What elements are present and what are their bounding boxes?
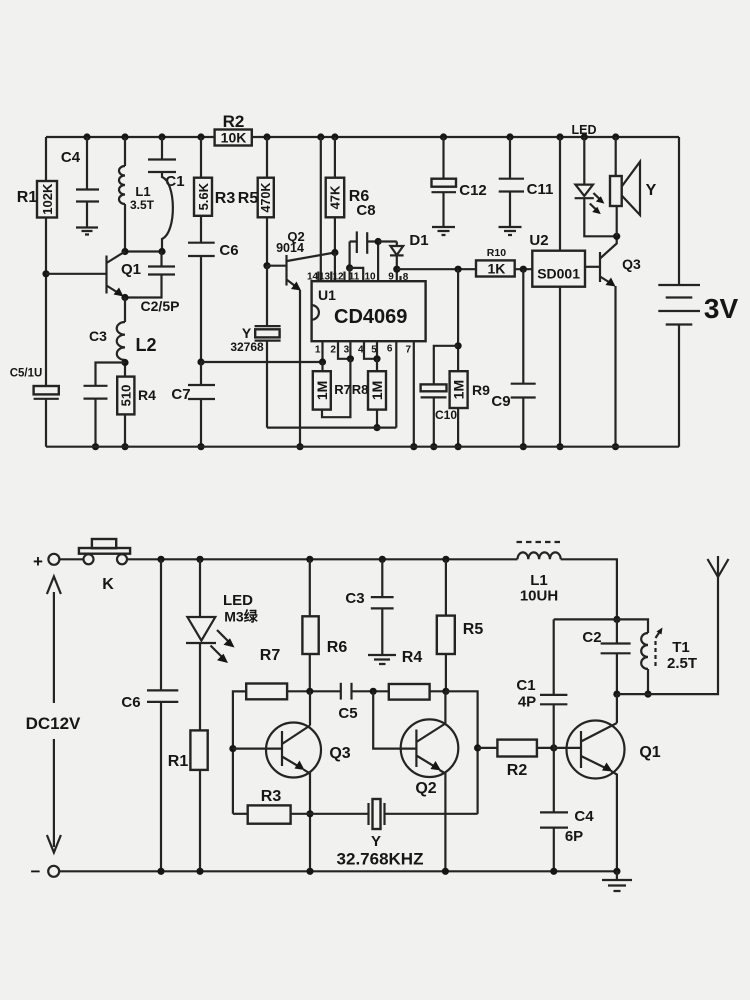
wire Q3 emitter down	[614, 286, 616, 447]
wire T1 top link	[617, 619, 648, 633]
svg-text:1M: 1M	[369, 381, 385, 400]
wire collector node to pin13	[334, 253, 336, 282]
svg-text:D1: D1	[409, 232, 428, 249]
wire R7 top	[321, 362, 323, 371]
node R1 rail	[196, 868, 203, 875]
wire pin12-pin11 bridge	[350, 268, 364, 281]
node C2 top	[158, 248, 165, 255]
node T1 bottom junction	[644, 691, 651, 698]
svg-text:Q3: Q3	[622, 256, 641, 272]
wire R10 to U2	[515, 268, 533, 270]
node rail-pin14	[317, 133, 324, 140]
svg-text:+: +	[33, 552, 43, 571]
svg-text:L1: L1	[530, 572, 548, 589]
transistor Q2 bottom circle	[401, 719, 459, 777]
resistor R2 bottom box	[497, 740, 537, 757]
capacitor C6 bottom circuit	[160, 559, 162, 690]
wire Q1 collector up	[616, 694, 618, 723]
svg-text:470K: 470K	[259, 183, 273, 213]
wire Q1 emitter down	[611, 771, 617, 871]
svg-text:12: 12	[332, 272, 344, 283]
wire Q3 base	[585, 266, 600, 268]
capacitor C3 bottom	[381, 559, 383, 597]
wire bottom ground rail (lower circuit)	[59, 870, 617, 872]
capacitor C8	[356, 231, 358, 253]
transistor Q1 bottom circle	[567, 721, 625, 779]
svg-text:R1: R1	[168, 753, 189, 770]
node Q1 base	[42, 270, 49, 277]
wire Q3 collector up	[309, 691, 311, 725]
svg-text:R2: R2	[507, 762, 528, 779]
wire Q1 base	[46, 273, 107, 275]
wire R3 right leg	[291, 813, 310, 815]
svg-text:R5: R5	[238, 190, 259, 207]
transistor Q1	[105, 256, 107, 294]
svg-text:3V: 3V	[704, 293, 739, 324]
node L2 bottom	[121, 359, 128, 366]
resistor R5 bottom	[445, 559, 447, 615]
capacitor C4	[86, 137, 88, 189]
svg-text:M3绿: M3绿	[224, 609, 258, 625]
U1 notch	[312, 305, 319, 320]
svg-text:Y: Y	[646, 182, 657, 199]
svg-text:R7: R7	[260, 647, 281, 664]
node Q1 emitter rail	[613, 868, 620, 875]
svg-text:C5/1U: C5/1U	[10, 368, 43, 380]
node rail-R5	[263, 133, 270, 140]
inductor L1 10UH	[518, 552, 561, 559]
transistor Q2	[285, 255, 287, 286]
resistor R3 box	[194, 178, 212, 216]
wire U2 top to rail	[559, 137, 561, 251]
node Q1 emitter	[121, 294, 128, 301]
svg-text:10K: 10K	[221, 130, 247, 146]
svg-text:11: 11	[349, 272, 360, 283]
wire junction to C10	[434, 346, 458, 385]
resistor R6 box	[326, 178, 345, 218]
svg-text:LED: LED	[223, 592, 253, 609]
svg-text:C4: C4	[574, 808, 594, 825]
svg-text:L2: L2	[135, 335, 156, 355]
svg-text:510: 510	[118, 385, 133, 407]
node R4 bottom rail	[121, 443, 128, 450]
svg-text:R9: R9	[472, 382, 490, 398]
resistor R2 box	[215, 130, 252, 146]
wire junction to C7	[200, 362, 202, 385]
svg-text:C4: C4	[61, 149, 81, 166]
wire rail to right corner	[561, 559, 617, 619]
svg-text:C1: C1	[516, 677, 535, 694]
wire R4 right	[430, 690, 446, 692]
wire Q2 emitter down	[299, 290, 301, 447]
wire R9 top link	[457, 269, 459, 371]
wire pin1 stub	[321, 341, 323, 362]
svg-text:R10: R10	[487, 247, 506, 259]
node U2 bottom rail	[556, 443, 563, 450]
capacitor C10	[421, 384, 447, 391]
svg-text:U1: U1	[318, 287, 336, 303]
svg-text:C10: C10	[435, 408, 457, 422]
node C2 top	[613, 616, 620, 623]
svg-text:32768: 32768	[230, 340, 264, 354]
transformer T1 coil	[641, 633, 648, 694]
svg-text:R6: R6	[327, 639, 348, 656]
svg-text:C2: C2	[582, 629, 601, 646]
inductor L1	[119, 137, 125, 252]
node rail-C4	[83, 133, 90, 140]
svg-text:T1: T1	[672, 639, 690, 656]
switch K	[84, 554, 94, 564]
node R2 left	[474, 744, 481, 751]
node pin7 rail	[410, 443, 417, 450]
svg-text:R8: R8	[352, 382, 369, 397]
resistor R4 bottom box	[389, 684, 430, 700]
node rail-C12	[440, 133, 447, 140]
node C6-C7 junction	[197, 358, 204, 365]
wire bottom ground rail	[46, 446, 679, 448]
svg-text:R7: R7	[334, 382, 351, 397]
svg-text:Q1: Q1	[121, 261, 141, 278]
wire R6 to collector node	[334, 217, 336, 252]
svg-text:47K: 47K	[327, 185, 342, 209]
ground below C11	[499, 227, 522, 235]
wire plus to switch	[59, 558, 83, 560]
node D1 bottom	[393, 266, 400, 273]
svg-text:4P: 4P	[518, 694, 536, 711]
svg-text:C12: C12	[459, 182, 487, 199]
capacitor C3	[84, 385, 108, 387]
node C3 bottom rail	[92, 443, 99, 450]
wire C5 to bottom rail	[45, 399, 47, 447]
IC U2 SD001 box	[532, 251, 585, 287]
node Q2 emitter rail	[442, 868, 449, 875]
capacitor C5/1U	[34, 386, 59, 394]
wire feedback bus	[267, 427, 396, 429]
wire R3 to C6	[200, 216, 202, 243]
svg-text:K: K	[102, 576, 114, 593]
capacitor C1 4P	[553, 619, 555, 695]
wire oscillator feed line	[201, 361, 323, 363]
svg-text:LED: LED	[572, 123, 597, 137]
wire C6 down to node	[200, 256, 202, 362]
node pin1 junction	[319, 358, 326, 365]
svg-text:SD001: SD001	[537, 266, 580, 282]
node R9-C10 junction	[455, 342, 462, 349]
node Q1 collector	[121, 248, 128, 255]
svg-text:L1: L1	[135, 184, 150, 199]
wire pin3 to R7 bottom	[322, 359, 350, 417]
wire Q2 emitter down	[440, 770, 446, 871]
node rail-speaker	[612, 133, 619, 140]
capacitor C9	[522, 269, 524, 384]
svg-text:C8: C8	[356, 202, 375, 219]
wire pins4-5 bridge	[364, 341, 377, 359]
svg-text:R1: R1	[17, 189, 38, 206]
wire R2 right link	[537, 747, 554, 749]
svg-text:32.768KHZ: 32.768KHZ	[337, 850, 424, 869]
capacitor C1	[161, 137, 163, 160]
IC U1 CD4069 box	[312, 281, 426, 341]
svg-text:102K: 102K	[40, 183, 55, 215]
wire pin6 stub	[395, 341, 397, 427]
node rail-LED	[581, 133, 588, 140]
resistor R6 bottom	[309, 559, 311, 616]
svg-text:C11: C11	[527, 181, 554, 198]
svg-text:2: 2	[330, 345, 336, 356]
svg-text:6: 6	[387, 344, 393, 355]
svg-text:U2: U2	[529, 232, 548, 249]
resistor R6 branch wire	[334, 137, 336, 178]
diode D1	[396, 242, 398, 247]
node C7 bottom rail	[197, 443, 204, 450]
svg-text:R3: R3	[215, 190, 236, 207]
svg-text:C5: C5	[338, 705, 357, 722]
node C5-Q2 base junction	[370, 688, 377, 695]
LED bottom arrows	[217, 630, 229, 642]
node rail-C6b	[157, 556, 164, 563]
node C9 top	[520, 266, 527, 273]
resistor R1 box bottom	[190, 730, 207, 770]
node Q1 base	[550, 744, 557, 751]
svg-text:5.6K: 5.6K	[196, 182, 211, 210]
node C6 bottom rail	[157, 868, 164, 875]
resistor R3 box	[248, 805, 291, 823]
svg-text:3.5T: 3.5T	[130, 198, 155, 212]
node C10 rail	[430, 443, 437, 450]
svg-text:9: 9	[388, 272, 394, 283]
svg-text:R4: R4	[138, 387, 156, 403]
node pin5 junction	[373, 355, 380, 362]
inductor L2	[117, 298, 125, 377]
svg-text:Y: Y	[371, 833, 381, 850]
svg-text:6P: 6P	[565, 828, 583, 845]
svg-text:R5: R5	[463, 621, 484, 638]
node Q3 emitter rail	[306, 868, 313, 875]
crystal Y 32.768KHZ	[310, 813, 369, 815]
capacitor C2	[148, 265, 175, 267]
node rail-L1	[121, 133, 128, 140]
svg-text:C6: C6	[219, 242, 238, 259]
svg-text:3: 3	[344, 345, 350, 356]
wire collector link	[125, 250, 162, 252]
crystal Y 32768	[255, 325, 281, 327]
wire Q2 base link	[267, 265, 287, 267]
ground below C4	[76, 228, 98, 235]
supply arrow DC12V	[53, 592, 55, 847]
svg-text:Y: Y	[242, 325, 252, 341]
wire top supply rail right segment	[252, 136, 679, 138]
wire L2 to C3	[96, 363, 126, 386]
wire pin14 supply	[320, 137, 322, 281]
LED arrows	[593, 193, 599, 199]
capacitor C2 bottom	[616, 619, 618, 643]
node rail-R6	[331, 133, 338, 140]
svg-text:C3: C3	[345, 590, 364, 607]
svg-text:1M: 1M	[314, 381, 330, 400]
battery 3V	[678, 137, 680, 285]
T1 adjust arrow	[654, 638, 656, 666]
capacitor C4 6P	[553, 748, 555, 813]
transistor Q3	[599, 252, 601, 282]
svg-text:R2: R2	[223, 112, 245, 131]
wire R8 top	[376, 359, 378, 371]
svg-text:1K: 1K	[487, 261, 505, 277]
node rail-R5b	[442, 556, 449, 563]
capacitor C12	[442, 137, 444, 179]
resistor R1 box	[37, 181, 57, 218]
node R6-Q3 collector	[306, 688, 313, 695]
wire node down to crystal	[266, 266, 268, 326]
wire pins2-3 bridge	[338, 341, 350, 359]
wire R3 left leg	[233, 813, 248, 815]
node Q3 base bottom	[229, 745, 236, 752]
svg-text:Q2: Q2	[415, 780, 436, 797]
node C8 right	[375, 238, 382, 245]
resistor R10 box	[476, 260, 515, 276]
wire R9 bottom	[457, 408, 459, 447]
svg-text:−: −	[31, 862, 41, 881]
wire left branch upper	[45, 137, 47, 181]
node Q3 emitter rail	[612, 443, 619, 450]
wire D1 to R10	[397, 268, 476, 270]
wire R1 to rail	[199, 770, 201, 871]
LED indicator	[583, 137, 585, 185]
wire R8 bottom to bus	[376, 410, 378, 428]
node R8 bottom	[373, 424, 380, 431]
svg-text:1: 1	[315, 345, 321, 356]
terminal plus circle	[48, 554, 59, 565]
svg-text:DC12V: DC12V	[26, 714, 81, 733]
svg-text:8: 8	[403, 272, 409, 283]
wire antenna feed	[617, 577, 718, 694]
node R3 right	[306, 810, 313, 817]
wire top supply rail left segment	[46, 136, 215, 138]
speaker Y	[615, 137, 617, 176]
capacitor C6	[188, 242, 215, 244]
wire bottom top rail	[127, 558, 518, 560]
wire C8 to D1	[378, 240, 397, 242]
resistor R7 box	[313, 371, 331, 409]
node R9 rail	[455, 443, 462, 450]
wire R2 left link	[478, 747, 498, 749]
wire Q3 emitter down	[304, 770, 311, 872]
resistor R5 branch wire	[266, 137, 268, 178]
svg-text:C2/5P: C2/5P	[141, 298, 180, 314]
svg-text:Q1: Q1	[639, 744, 660, 761]
svg-text:CD4069: CD4069	[334, 306, 407, 328]
resistor R5 box	[258, 178, 274, 218]
svg-text:2.5T: 2.5T	[667, 655, 697, 672]
wire C8 left leg	[349, 242, 351, 268]
LED M3 green	[199, 559, 201, 617]
wire Q3 base link	[233, 747, 282, 749]
resistor R7 bottom box	[246, 684, 287, 700]
ground below C3	[368, 655, 396, 664]
capacitor C11	[509, 137, 511, 179]
wire R5 to Q2 base node	[266, 217, 268, 265]
svg-text:9014: 9014	[276, 241, 304, 255]
wire R7 left leg	[233, 691, 246, 813]
svg-text:7: 7	[406, 345, 412, 356]
wire C8 right to pin10	[377, 242, 379, 282]
node rail-U2	[556, 133, 563, 140]
wire C1 bottom bulge	[162, 172, 173, 252]
svg-text:R3: R3	[261, 788, 282, 805]
node Q2 collector	[331, 249, 338, 256]
resistor R4 box	[117, 377, 134, 415]
wire Q2 base drop	[373, 691, 416, 748]
node C4 rail	[550, 868, 557, 875]
ground below C12	[432, 227, 455, 235]
wire R4 to bottom rail	[124, 414, 126, 446]
wire R7 right to collector node	[287, 690, 341, 692]
U1 top pin separators	[318, 272, 400, 282]
wire Q2 collector up	[444, 691, 446, 723]
svg-text:Q3: Q3	[329, 745, 350, 762]
node Q2 base	[263, 262, 270, 269]
capacitor C5 bottom	[340, 683, 342, 700]
svg-text:C9: C9	[491, 393, 510, 410]
wire left branch lower	[45, 218, 47, 387]
svg-text:R4: R4	[402, 649, 423, 666]
svg-text:14: 14	[307, 272, 319, 283]
transistor Q3 bottom circle	[266, 723, 321, 778]
node R5-Q2 collector	[442, 688, 449, 695]
node Q2 emitter rail	[296, 443, 303, 450]
ground at rail end	[616, 871, 618, 879]
svg-text:10: 10	[364, 272, 376, 283]
capacitor C7	[188, 384, 215, 386]
node rail-LEDb	[196, 556, 203, 563]
wire pin7 to ground rail	[413, 341, 415, 447]
resistor R8 box	[368, 371, 386, 409]
svg-text:1M: 1M	[451, 380, 467, 399]
wire U2 bottom to rail	[559, 287, 561, 447]
node rail-R3	[197, 133, 204, 140]
node C9 rail	[520, 443, 527, 450]
svg-text:C6: C6	[121, 694, 140, 711]
svg-text:C7: C7	[171, 386, 190, 403]
node pin3 junction	[347, 355, 354, 362]
node C2 bottom junction	[613, 691, 620, 698]
node rail-R6b	[306, 556, 313, 563]
node rail-C1	[158, 133, 165, 140]
svg-text:10UH: 10UH	[520, 588, 558, 605]
wire crystal bottom	[266, 341, 268, 428]
svg-text:13: 13	[319, 272, 331, 283]
wire collector node to R2 drop	[446, 691, 478, 814]
resistor R9 box	[450, 371, 468, 408]
svg-text:C3: C3	[89, 328, 107, 344]
node rail-C3b	[379, 556, 386, 563]
node LED-Q3 collector	[613, 233, 620, 240]
terminal minus circle	[48, 866, 59, 877]
node C8 left	[346, 264, 353, 271]
resistor R3 branch wire	[200, 137, 202, 178]
wire C1 top link	[554, 618, 617, 620]
node R9 top tap	[455, 266, 462, 273]
node rail-C11	[506, 133, 513, 140]
antenna	[708, 556, 729, 577]
